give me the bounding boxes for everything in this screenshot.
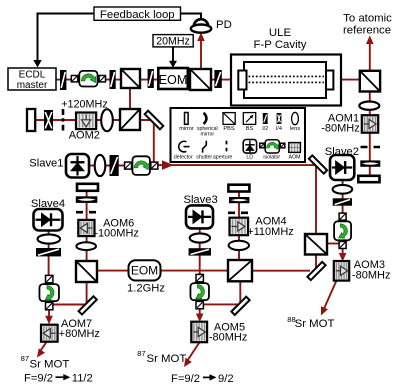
beam: slave1 output: [89, 165, 150, 167]
svg-text:Feedback loop: Feedback loop: [100, 9, 175, 21]
svg-text:mirror: mirror: [179, 126, 194, 132]
beam: slave4 down to isolator: [48, 230, 50, 277]
laser Slave2: [330, 155, 354, 180]
beam: slave2 isolator to AOM3: [342, 246, 344, 256]
AOM6 -100MHz: [78, 220, 94, 236]
retro mirror (AOM4 column): [228, 185, 249, 192]
laser Slave1: [66, 154, 89, 178]
beam: PBS7 down to mirror M7: [86, 282, 88, 305]
photodiode PD: [194, 19, 208, 25]
waveplate before cavity: [214, 70, 221, 88]
beam: injection line under legend: [157, 164, 317, 166]
PBS1 cube: [121, 69, 140, 88]
waveplate (slave2): [333, 198, 352, 205]
svg-text:mirror: mirror: [201, 131, 215, 137]
optical isolator (slave3): [196, 274, 203, 281]
lens (AOM6 column): [76, 242, 96, 250]
waveplate after PBS1: [148, 69, 154, 88]
beam: mirror M5 left to slave3 isolator: [204, 303, 240, 305]
svg-text:+80MHz: +80MHz: [59, 328, 100, 340]
lens (slave1): [95, 155, 106, 176]
retro mirror (AOM2 row): [27, 109, 35, 131]
box: 20MHz oscillator: [153, 35, 193, 47]
beam: PBS7 to EOM 1.2GHz: [97, 270, 129, 272]
svg-text:-80MHz: -80MHz: [352, 269, 391, 281]
svg-text:F=9/2: F=9/2: [24, 373, 53, 385]
svg-text:-80MHz: -80MHz: [321, 122, 360, 134]
svg-text:PBS: PBS: [223, 126, 234, 132]
optical isolator (master): [71, 76, 77, 82]
AOM7 +80MHz: [41, 325, 58, 342]
svg-text:F=9/2: F=9/2: [171, 373, 200, 385]
wire: 20MHz to EOM: [172, 47, 174, 62]
beam: PBS1 down to AOM2 row: [129, 88, 131, 110]
svg-text:Slave1: Slave1: [29, 157, 63, 169]
laser Slave4: [34, 209, 63, 231]
svg-text:BS: BS: [246, 126, 254, 132]
beam: PBS5 down to mirror M5: [239, 281, 241, 304]
retro mirror (AOM6 column): [77, 184, 98, 191]
svg-text:l/4: l/4: [276, 126, 282, 132]
beam: slave3 down to isolator: [199, 228, 201, 276]
mirror M8 45deg: [307, 262, 325, 280]
lens (slave3): [190, 233, 210, 242]
beam: cavity output to PBS4 up: [369, 42, 371, 71]
AOM1 -80MHz: [362, 115, 378, 133]
PBS5 cube: [228, 260, 252, 281]
svg-text:1.2GHz: 1.2GHz: [127, 283, 165, 295]
optical isolator (slave1): [125, 162, 132, 169]
svg-text:aperture: aperture: [213, 155, 232, 161]
svg-text:20MHz: 20MHz: [156, 35, 190, 47]
AOM2 +120MHz: [76, 113, 96, 130]
svg-text:F-P Cavity: F-P Cavity: [254, 39, 307, 51]
svg-text:ULE: ULE: [269, 27, 292, 39]
quarter waveplate (AOM2 row): [44, 110, 53, 131]
retro mirror (slave2 column): [358, 176, 379, 182]
wire: feedback loop to PD: [181, 14, 202, 19]
svg-text:LD: LD: [246, 155, 253, 161]
svg-text:master: master: [17, 80, 48, 91]
wire: feedback loop to ECDL master: [38, 14, 95, 62]
AOM3 -80MHz: [334, 261, 349, 281]
svg-text:87: 87: [21, 354, 29, 363]
waveplate (slave3): [189, 248, 211, 255]
svg-text:9/2: 9/2: [218, 373, 234, 385]
laser Slave3: [186, 205, 213, 228]
mirror M5 45deg: [231, 297, 249, 315]
svg-text:lens: lens: [290, 126, 300, 132]
svg-text:PD: PD: [216, 19, 232, 31]
PBS cube (AOM2 row): [120, 109, 140, 130]
beam: mirror M7 left to slave4 isolator: [52, 304, 88, 306]
beam: AOM7 to 87Sr MOT: [39, 342, 47, 354]
beam: PBS5 mirror to PBS3 mirror: [252, 270, 310, 272]
beam: PBS4 down to retro mirror: [369, 91, 371, 176]
svg-text:-100MHz: -100MHz: [94, 228, 139, 240]
spherical mirror (AOM4 column): [229, 197, 249, 203]
AOM4 +110MHz: [230, 218, 249, 236]
beam: AOM5 to 87Sr MOT: [186, 342, 201, 364]
beam: PBS2 up to PD: [200, 38, 202, 69]
svg-text:EOM: EOM: [131, 264, 158, 278]
EOM 1.2GHz modulator: [129, 260, 161, 280]
svg-text:reference: reference: [343, 24, 391, 36]
waveplate after master: [60, 70, 66, 90]
spherical mirror (AOM6 column): [76, 196, 98, 203]
svg-text:EOM: EOM: [159, 73, 188, 87]
spherical mirror (slave2 column): [360, 160, 380, 166]
svg-text:+110MHz: +110MHz: [247, 226, 294, 238]
svg-text:+120MHz: +120MHz: [61, 98, 108, 110]
AOM5 -80MHz: [191, 322, 207, 343]
beam: slave4 isolator to AOM7: [48, 308, 50, 318]
lens (slave2): [333, 185, 353, 194]
beam: EOM 1.2GHz to PBS5: [160, 270, 229, 272]
svg-text:11/2: 11/2: [72, 373, 93, 385]
waveplate (slave4): [36, 248, 61, 256]
svg-text:shutter: shutter: [196, 155, 212, 161]
beam: slave3 isolator to AOM5: [199, 308, 201, 316]
aperture (slave2 column): [361, 146, 381, 149]
lens (AOM2 row): [101, 109, 113, 131]
beam: AOM2 double-pass row: [33, 119, 152, 121]
mirror M3 45deg: [309, 155, 327, 173]
aperture (AOM6 column): [76, 211, 97, 214]
beam: AOM4 column vertical: [238, 191, 240, 261]
svg-text:isolator: isolator: [263, 155, 280, 161]
waveplate before PBS1: [110, 70, 116, 89]
aperture (AOM2 row): [62, 109, 65, 131]
optical isolator (slave2): [339, 213, 346, 220]
waveplate (slave1): [110, 155, 119, 176]
box: Feedback loop: [94, 7, 181, 20]
svg-text:AOM2: AOM2: [69, 129, 100, 141]
beam: PBS3 to slave2 isolator: [327, 243, 343, 245]
beam: slave2 down to isolator: [342, 180, 344, 241]
svg-text:AOM: AOM: [289, 155, 301, 161]
lens (AOM4 column): [229, 241, 249, 250]
svg-text:Sr MOT: Sr MOT: [147, 353, 187, 365]
PBS2 cube: [190, 69, 211, 90]
mirror M2 45deg: [145, 111, 164, 130]
PBS7 cube: [76, 261, 97, 282]
ULE F-P cavity: [231, 55, 341, 106]
svg-text:To atomic: To atomic: [343, 12, 392, 24]
optical isolator (slave4): [46, 275, 53, 282]
mirror M7 45deg: [79, 296, 97, 314]
svg-text:Sr MOT: Sr MOT: [295, 318, 335, 330]
svg-text:87: 87: [137, 349, 145, 358]
beam: mirror M2 down to slave1 row: [153, 122, 155, 162]
PBS4 cube: [360, 71, 380, 92]
svg-text:Sr MOT: Sr MOT: [30, 358, 70, 370]
PBS3 cube: [305, 234, 327, 255]
laser ECDL master: [8, 68, 56, 90]
beam: mirror M3 down through PBS3: [315, 166, 317, 271]
lens (below PBS4): [359, 102, 379, 110]
EOM phase modulator: [158, 68, 188, 89]
lens (slave4): [38, 234, 61, 243]
beam: master row horizontal: [56, 79, 360, 81]
beam: AOM3 to 88Sr MOT: [323, 281, 337, 313]
legend box of symbols: [171, 108, 306, 162]
aperture (AOM4 column): [228, 212, 250, 215]
svg-text:-80MHz: -80MHz: [209, 332, 248, 344]
beam: AOM6 column vertical: [86, 190, 88, 262]
svg-text:l/2: l/2: [262, 126, 268, 132]
svg-text:detector: detector: [174, 155, 193, 161]
